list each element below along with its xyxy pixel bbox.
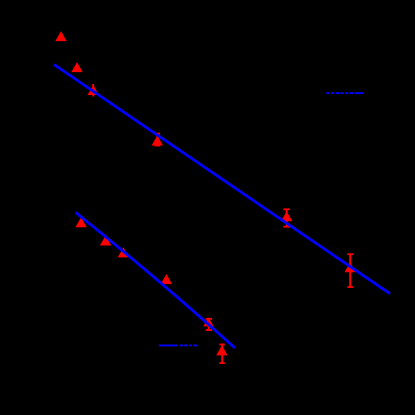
error bar of point P5 (upper series) — [283, 209, 290, 228]
error bar of point PE (lower series) — [206, 318, 212, 331]
data point PD (lower series triangle) — [161, 274, 172, 284]
data point PF (lower series triangle) — [216, 345, 227, 355]
data point P5 (upper series triangle) — [281, 211, 292, 221]
data point P6 (upper series triangle) — [345, 262, 356, 272]
data point PB (lower series triangle) — [100, 236, 111, 246]
fit line 1 (upper, solid blue) — [54, 65, 390, 294]
legend line sample 1 (top right, dashed blue) — [326, 92, 363, 94]
data point PC (lower series triangle) — [118, 247, 129, 257]
data point P3 (upper series triangle) — [88, 85, 99, 95]
data point P4 (upper series triangle) — [152, 136, 163, 146]
legend line sample 2 (bottom middle, dashed blue) — [159, 344, 197, 346]
fit line 2 (lower, solid blue) — [76, 212, 236, 348]
error bar of point PF (lower series) — [219, 344, 225, 364]
data point PE (lower series triangle) — [203, 317, 213, 326]
data point PA (lower series triangle) — [75, 217, 86, 227]
error bar of point P6 (upper series) — [347, 253, 353, 288]
error bar of point P4 (upper series) — [155, 133, 161, 147]
error bar of point P3 (upper series) — [92, 84, 94, 97]
data point P2 (upper series triangle) — [71, 62, 82, 72]
data point P1 (upper series triangle) — [55, 31, 66, 41]
